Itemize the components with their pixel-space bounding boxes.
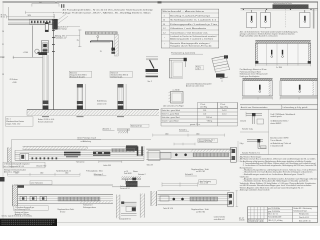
vertical dim line left of trolley — [31, 26, 33, 58]
striped track bottom left — [58, 197, 100, 201]
small square detail with label — [163, 89, 184, 107]
dimension line bottom left — [8, 173, 81, 176]
schnitt c caption — [179, 128, 189, 131]
wall profile sketch A — [146, 57, 159, 84]
hatched wall stub left of band — [8, 148, 12, 163]
section c track lines — [146, 153, 232, 160]
boxed label above band — [30, 181, 52, 185]
track body lines section d — [158, 195, 230, 205]
section d captions below — [163, 207, 210, 213]
elevation 1 door centreline dashed — [284, 9, 286, 28]
boxed label wandanschlussprofil — [3, 162, 45, 173]
floor guide marks under panels — [42, 115, 124, 118]
lichte dimension below band — [99, 161, 122, 163]
right column detail texts — [270, 113, 296, 148]
hatched ceiling strip with cover gap — [23, 145, 138, 151]
black label strip bottom left — [0, 219, 57, 226]
hatched wall right of middle details — [151, 191, 157, 206]
left border tiny scale texts — [1, 14, 6, 76]
annotation text top — [63, 9, 154, 15]
bracket profile sketch B — [169, 58, 187, 78]
section c captions below — [147, 163, 210, 173]
dotted centre line of panel 1 — [53, 12, 55, 22]
note text block 2 — [240, 68, 268, 78]
P5 label left edge — [0, 177, 5, 182]
door frame end element — [137, 146, 144, 160]
ceiling dimension line — [7, 14, 55, 18]
unter fensterspr caption — [77, 137, 101, 143]
trolley hardware under rail — [39, 23, 49, 56]
header strip glastrennwand — [240, 105, 318, 109]
dark bar cluster door pocket — [64, 152, 81, 158]
top leader tick — [25, 11, 27, 14]
roller dash row — [32, 157, 58, 159]
elevation box B — [280, 78, 318, 99]
section c roller dots — [175, 154, 178, 157]
detail callout label M1:1 upper — [55, 25, 80, 30]
right hatched strip of step detail — [140, 194, 144, 218]
section d left blocks — [160, 196, 169, 201]
elevation 1 panel c — [300, 13, 311, 28]
hatched wall left — [12, 185, 24, 207]
captions below band — [36, 161, 111, 173]
ceiling track rail section — [8, 19, 58, 30]
upper line section d — [158, 189, 230, 191]
montage caption top — [94, 173, 107, 176]
track body lines bottom left — [18, 195, 114, 204]
leader lines to annotation — [56, 14, 68, 24]
main dimension line section c — [153, 134, 225, 137]
elevation 1 panel b — [261, 13, 271, 30]
detail bubble circle — [35, 49, 39, 53]
section c end post — [231, 147, 237, 162]
track body lines — [15, 150, 144, 160]
floor guide labels — [97, 100, 107, 106]
fuehrungsschiene caption — [83, 204, 96, 209]
top leader line — [25, 11, 62, 13]
section d striped track — [190, 197, 218, 201]
short vertical line left — [7, 7, 9, 19]
regelanschluss caption bottom left — [58, 208, 75, 213]
small bracket sketch next to caption — [117, 124, 149, 133]
upper rail line right part — [112, 186, 150, 188]
dimension lines section d — [162, 182, 198, 186]
vertical dimension line x80 — [78, 30, 81, 48]
right cells — [293, 212, 319, 218]
slanted panel sketch C — [212, 55, 230, 82]
level line below trolley — [13, 56, 43, 59]
detail 4 sketch — [240, 112, 263, 124]
section d roller dots — [173, 198, 176, 201]
detail 5 sketch — [240, 139, 267, 149]
note text block 1 — [240, 30, 299, 37]
floor slab hatched — [27, 110, 159, 116]
weitere schnitte note — [214, 216, 225, 221]
revision grid — [248, 207, 268, 223]
elevation box A — [243, 78, 273, 99]
boxed label oben durchgang tuer2 — [199, 180, 217, 185]
panel 1 glass section — [43, 55, 48, 110]
roller blocks bottom left — [20, 196, 47, 201]
panel 3 glass section — [118, 84, 127, 110]
frame fold tick top center — [158, 1, 162, 3]
floor text below — [38, 119, 54, 124]
tiny texts above ceiling anchor — [124, 171, 139, 175]
top boundary line — [11, 139, 151, 141]
schnitt d caption — [185, 173, 197, 176]
frame tick top left — [55, 2, 57, 4]
detail callout label M1:1 lower — [55, 34, 80, 39]
left component on track — [20, 154, 29, 161]
sketch B label box — [195, 66, 203, 71]
elevation 1 panel a — [246, 13, 256, 30]
elevation 1 track rail — [241, 9, 318, 10]
small texts below level line — [10, 79, 18, 84]
panel 2 glass section — [77, 84, 86, 110]
two column detail area divider — [240, 109, 318, 154]
step profile detail — [119, 201, 137, 220]
section d end post — [228, 192, 233, 207]
tiny text left of title block — [239, 217, 245, 221]
dark mid cluster — [93, 152, 110, 156]
hatched floor strip below right part — [80, 201, 113, 204]
elevation 2 bottom dimension ticks — [255, 64, 310, 67]
top line of left bottom detail — [14, 184, 113, 186]
boxed label bottom left — [14, 206, 49, 216]
second dimension line — [8, 175, 81, 177]
striped track segment — [112, 149, 135, 152]
sketch captions — [186, 82, 212, 87]
elevation 1 hatched header band — [273, 5, 309, 9]
middle cells — [268, 207, 293, 223]
section c top line with hatch — [146, 149, 232, 152]
elevation 1 right wall — [313, 9, 314, 29]
border tick mid left — [0, 56, 5, 59]
left hatched strip of step detail — [116, 195, 120, 219]
ceiling anchor detail — [120, 176, 141, 190]
boxed label oben durchgang — [198, 139, 218, 144]
section c striped track — [193, 153, 229, 157]
label boxes above panels 2 and 3 — [69, 71, 132, 78]
dark hatched block right end — [126, 181, 138, 187]
elevation 2 rail band — [255, 40, 310, 43]
wall anchor text box left — [6, 117, 34, 126]
tiny text above black strip — [2, 215, 33, 218]
front view caption underlined — [171, 51, 203, 54]
hanger stems elevation 1 — [252, 10, 305, 13]
fixed glass line right of panel 1 — [53, 22, 55, 110]
section c left blocks — [148, 151, 160, 161]
ansicht 1 caption — [103, 128, 115, 131]
left boundary — [10, 140, 12, 168]
right vertical dim line section d — [236, 190, 239, 207]
elevation 2 panel field — [255, 43, 310, 63]
top dimension line 764 — [32, 4, 59, 7]
tick marks on main vertical — [52, 30, 55, 52]
secondary dimension line section c — [174, 143, 195, 146]
panel 1 bottom hardware — [43, 101, 49, 105]
hanger marks above rail — [61, 4, 64, 8]
corner profile detail top-centre — [85, 32, 118, 56]
